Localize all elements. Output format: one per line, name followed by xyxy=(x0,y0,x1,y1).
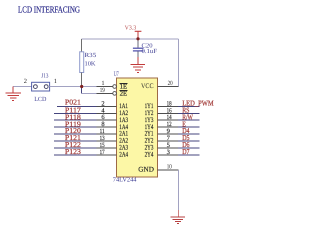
svg-text:2A4: 2A4 xyxy=(119,152,128,159)
svg-text:1Y3: 1Y3 xyxy=(145,117,154,124)
svg-text:8: 8 xyxy=(101,121,104,128)
wire VCC rail left drop to resistor xyxy=(81,39,83,45)
wire resistor bottom to junction xyxy=(81,73,83,80)
pin 10 stub xyxy=(158,169,179,171)
right data rows xyxy=(158,106,200,155)
pin 2 stub xyxy=(97,105,117,107)
wire D7 xyxy=(178,154,200,156)
wire junction to pin 1 bubble xyxy=(82,86,97,88)
pin 19 bubble xyxy=(113,92,117,96)
svg-text:2Y2: 2Y2 xyxy=(145,138,154,145)
ground at pin 10 xyxy=(171,210,186,224)
chip left pin names xyxy=(119,103,128,159)
wire RS xyxy=(178,112,200,114)
left pin numbers xyxy=(100,100,106,156)
pin 15 stub xyxy=(97,147,117,149)
wire R/W xyxy=(178,119,200,121)
svg-text:10K: 10K xyxy=(85,60,96,67)
connector J13 xyxy=(32,73,50,103)
svg-text:16: 16 xyxy=(167,107,173,114)
svg-text:17: 17 xyxy=(100,149,106,156)
svg-text:LCD: LCD xyxy=(34,96,47,103)
junction dot at V3.3 xyxy=(136,37,139,40)
ground below C20 xyxy=(131,57,146,72)
wire P119 xyxy=(54,126,97,128)
svg-text:20: 20 xyxy=(168,80,173,87)
pin 16 stub xyxy=(158,112,178,114)
svg-text:13: 13 xyxy=(100,135,105,142)
svg-text:10: 10 xyxy=(167,163,172,170)
pin 9 stub xyxy=(158,133,178,135)
svg-text:74LV244: 74LV244 xyxy=(113,177,137,184)
svg-text:VCC: VCC xyxy=(141,83,154,90)
svg-text:1: 1 xyxy=(54,78,57,85)
pin 12 stub xyxy=(158,126,178,128)
svg-text:19: 19 xyxy=(100,87,105,94)
capacitor C20 xyxy=(133,39,158,59)
pin 3 stub xyxy=(158,154,178,156)
wire P121 xyxy=(54,140,97,142)
wire P021 xyxy=(57,105,97,107)
wire GND down xyxy=(177,170,179,210)
pin 4 stub xyxy=(97,112,117,114)
junction dot below resistor xyxy=(80,85,83,88)
svg-text:2Y3: 2Y3 xyxy=(145,145,154,152)
pin name 1E (active low) xyxy=(119,83,127,90)
wire P123 xyxy=(54,154,97,156)
svg-text:14: 14 xyxy=(167,114,173,121)
wire to pin 19 bubble xyxy=(82,92,97,94)
pin name 2E (active low) xyxy=(119,91,127,98)
wire P117 xyxy=(54,112,97,114)
wire D6 xyxy=(178,147,200,149)
net labels right xyxy=(182,98,214,156)
pin 1 bubble xyxy=(113,85,117,89)
pin 17 stub xyxy=(97,154,117,156)
svg-text:1A1: 1A1 xyxy=(119,103,128,110)
svg-text:R35: R35 xyxy=(85,52,97,59)
svg-text:1A3: 1A3 xyxy=(119,117,128,124)
wire J13 pin1 to junction xyxy=(50,86,82,88)
svg-text:18: 18 xyxy=(167,100,172,107)
wire LED_PWM xyxy=(178,105,200,107)
svg-text:9: 9 xyxy=(167,128,170,135)
svg-text:2: 2 xyxy=(101,100,104,107)
wire P122 xyxy=(54,147,97,149)
pin 20 stub xyxy=(158,86,179,88)
wire P120 xyxy=(54,133,97,135)
pin 11 stub xyxy=(97,133,117,135)
svg-text:2: 2 xyxy=(24,78,27,85)
ic U7 74LV244 body xyxy=(113,71,158,184)
wire ground to J13 pin 2 xyxy=(13,86,31,88)
pin 7 stub xyxy=(158,140,178,142)
svg-text:2Y1: 2Y1 xyxy=(145,131,154,138)
svg-text:2A1: 2A1 xyxy=(119,131,128,138)
right pin numbers xyxy=(167,100,173,156)
svg-text:1A2: 1A2 xyxy=(119,110,128,117)
left data rows xyxy=(54,106,117,155)
svg-text:GND: GND xyxy=(138,166,154,174)
pin 18 stub xyxy=(158,105,178,107)
svg-text:3: 3 xyxy=(167,149,170,156)
svg-text:1E: 1E xyxy=(120,84,128,91)
svg-text:U7: U7 xyxy=(114,71,119,78)
pin 6 stub xyxy=(97,119,117,121)
svg-text:12: 12 xyxy=(167,121,172,128)
wire E xyxy=(178,126,200,128)
pin 5 stub xyxy=(158,147,178,149)
wire D4 xyxy=(178,133,200,135)
svg-text:V3.3: V3.3 xyxy=(125,25,137,32)
svg-text:11: 11 xyxy=(100,128,105,135)
net labels left xyxy=(65,97,81,156)
pin 13 stub xyxy=(97,140,117,142)
svg-text:1Y2: 1Y2 xyxy=(145,110,154,117)
wire D5 xyxy=(178,140,200,142)
svg-text:P123: P123 xyxy=(65,147,81,156)
svg-text:2A2: 2A2 xyxy=(119,138,128,145)
svg-text:1Y4: 1Y4 xyxy=(145,124,154,131)
wire VCC rail horizontal xyxy=(82,38,179,40)
resistor R35 xyxy=(80,52,97,73)
ground at J13 xyxy=(6,87,21,101)
svg-text:0.1uF: 0.1uF xyxy=(142,48,158,55)
svg-text:J13: J13 xyxy=(41,73,48,80)
svg-text:15: 15 xyxy=(100,142,105,149)
svg-text:1Y1: 1Y1 xyxy=(145,103,154,110)
power V3.3 xyxy=(125,25,142,39)
svg-text:D7: D7 xyxy=(182,147,190,156)
svg-text:5: 5 xyxy=(167,142,170,149)
pin 14 stub xyxy=(158,119,178,121)
pin 8 stub xyxy=(97,126,117,128)
wire P118 xyxy=(54,119,97,121)
chip right pin names xyxy=(138,103,154,174)
svg-text:2E: 2E xyxy=(120,91,128,98)
svg-text:1A4: 1A4 xyxy=(119,124,128,131)
svg-text:2A3: 2A3 xyxy=(119,145,128,152)
svg-text:2Y4: 2Y4 xyxy=(145,152,154,159)
wire VCC rail right drop to pin 20 xyxy=(177,39,179,87)
svg-text:LCD INTERFACING: LCD INTERFACING xyxy=(18,4,80,14)
wire junction down xyxy=(81,87,83,94)
